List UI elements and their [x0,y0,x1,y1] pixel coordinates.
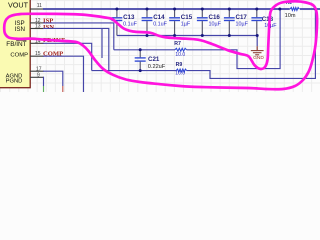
svg-text:VOUT: VOUT [8,1,29,10]
IC U? body [0,0,30,88]
pin name ISP [15,20,25,27]
junction GND bus 1 [146,34,149,37]
capacitor C21 [135,50,166,71]
svg-text:1µF: 1µF [181,21,191,27]
capacitor C16 [197,9,222,36]
svg-text:R9: R9 [176,62,183,68]
junction VOUT rail / drop 3 [173,8,176,11]
wire AGND [43,71,63,86]
wire ISN stub branch [101,28,103,58]
pin name VOUT [8,1,29,10]
pin name PGND [6,78,23,84]
junction GND bus 2 [173,34,176,37]
pin name ISN [15,26,25,33]
resistor R9 [175,62,186,77]
junction VOUT rail / drop 5 [228,8,231,11]
resistor R4 10m shunt [285,0,300,19]
pin name FB/INT [6,40,26,48]
wire R7 net (ISP to R7) [114,49,175,51]
junction GND bus 5 [256,34,259,37]
svg-text:GND: GND [253,55,264,61]
wire R7 right to R4 left [187,9,281,69]
capacitor C18 [251,9,277,36]
svg-text:C14: C14 [153,14,165,21]
junction GND bus 3 [201,34,204,37]
svg-text:C13: C13 [123,14,135,21]
junction VOUT rail / drop 7 [278,8,281,11]
wire PGND net continuation [43,86,45,92]
pin 17 [30,66,44,72]
junction C21 bottom on R9 wire [139,69,142,72]
svg-text:0.22uF: 0.22uF [148,64,166,70]
svg-text:10m: 10m [285,13,296,19]
svg-text:13: 13 [35,24,41,30]
svg-text:R7: R7 [174,41,181,47]
wire FB/INT [43,43,92,70]
resistor R7 [174,41,186,58]
svg-text:C17: C17 [236,14,248,21]
svg-text:0.1uF: 0.1uF [123,21,137,27]
capacitor C13 [112,9,138,36]
svg-text:10µF: 10µF [209,21,222,27]
svg-text:ISN: ISN [15,26,25,33]
pin name COMP [10,53,28,59]
wire VOUT rail [43,8,320,10]
wire R9 net (FB to R9) [92,70,177,72]
net label COMP [43,50,63,57]
pin 15 [30,51,44,57]
junction VOUT rail / drop 4 [201,8,204,11]
wire ISN [43,28,109,70]
wire GND bus under capacitors [117,36,257,47]
junction VOUT rail / drop 1 [115,8,118,11]
pin 11 [30,3,44,9]
wire COMP [43,56,84,92]
svg-text:COMP: COMP [10,53,28,59]
capacitor C15 [169,9,193,36]
junction GND bus 4 [228,34,231,37]
pin name AGND [6,73,23,79]
net label ISN [43,24,54,31]
wire R9 right to R4 right [187,9,316,78]
svg-text:PGND: PGND [6,78,23,84]
junction VOUT rail / drop 8 [314,8,317,11]
net label ISP [43,17,53,24]
capacitor C14 [142,9,168,36]
svg-text:17: 17 [36,66,42,72]
svg-text:10µF: 10µF [236,21,249,27]
svg-text:10.0: 10.0 [175,52,185,58]
pin 13 [30,24,44,30]
svg-text:15: 15 [35,51,41,57]
svg-text:C16: C16 [209,14,221,21]
junction VOUT rail / drop 2 [146,8,149,11]
svg-text:11: 11 [37,3,42,9]
freehand highlight annotation loop [4,1,317,89]
net label FB/INT [43,37,66,44]
svg-text:10.0: 10.0 [175,71,185,77]
ground GND [251,46,265,61]
svg-text:FB/INT: FB/INT [6,41,26,48]
svg-text:C21: C21 [148,56,160,63]
wire PGND [42,77,45,86]
svg-text:10µF: 10µF [264,23,277,29]
pin 14 [30,38,44,44]
wire AGND net continuation [62,86,64,92]
junction C21 top on R7 wire [139,48,142,51]
capacitor C17 [224,9,249,36]
pin 9 [30,72,44,78]
junction VOUT rail / drop 6 [255,8,258,11]
wire ISP [43,23,114,50]
svg-text:0.1uF: 0.1uF [153,21,167,27]
svg-text:C15: C15 [181,14,193,21]
svg-text:ISN: ISN [43,24,54,31]
pin 12 [30,18,44,24]
svg-text:9: 9 [37,72,40,78]
